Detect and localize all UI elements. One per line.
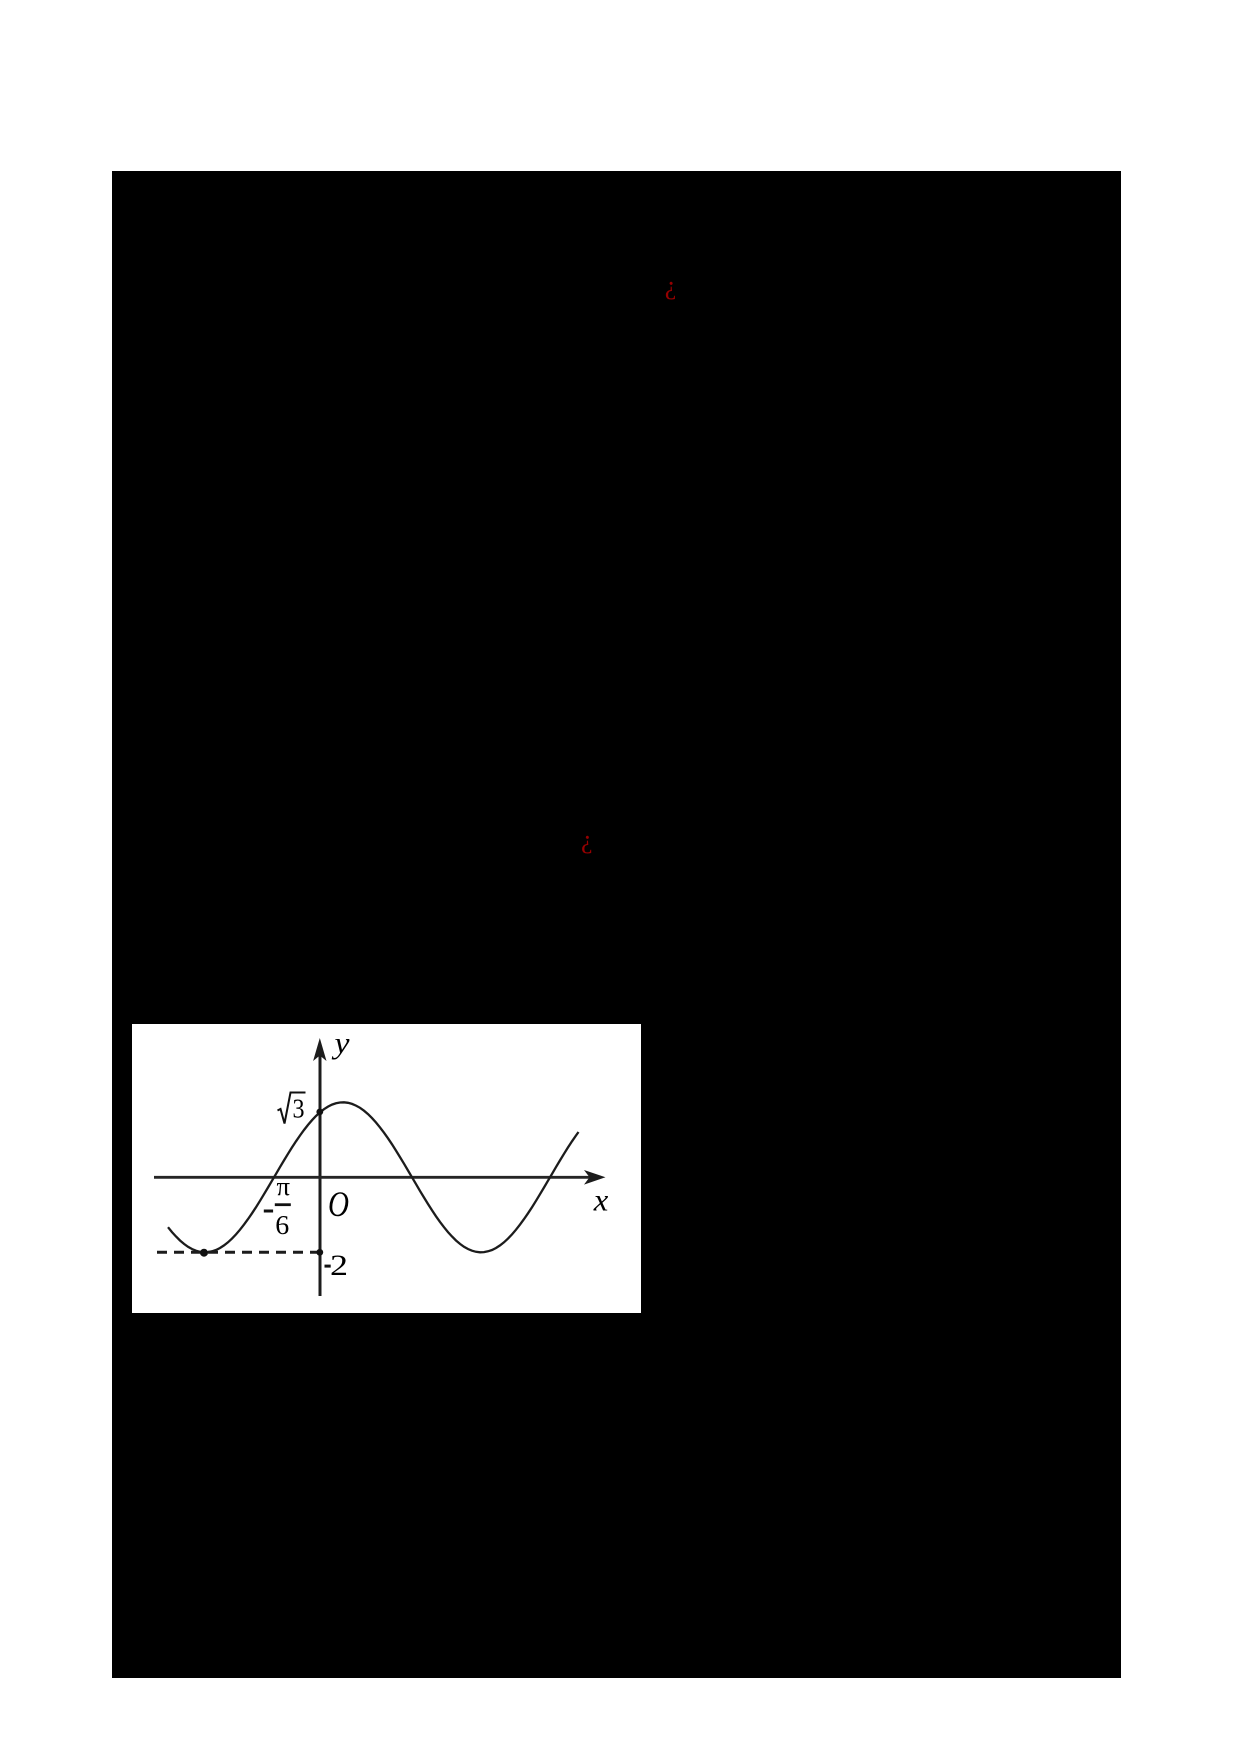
formula placeholder glyph 1 [665, 273, 677, 299]
black content block [112, 171, 1121, 1678]
graph image white box [132, 1024, 641, 1313]
svg-text:3: 3 [293, 1093, 305, 1123]
label -pi/6 minus [264, 1210, 273, 1213]
fraction bar [275, 1203, 291, 1206]
dot on y-axis at -2 [316, 1249, 323, 1256]
svg-text:2: 2 [330, 1249, 348, 1282]
dashed line y=-2 [157, 1251, 322, 1254]
dot at minimum point [200, 1249, 208, 1257]
svg-text:O: O [328, 1184, 349, 1224]
label -2 minus [325, 1265, 331, 1268]
svg-text:y: y [331, 1025, 350, 1060]
y-axis [319, 1044, 322, 1296]
formula placeholder glyph 2 [581, 827, 593, 853]
x-axis arrowhead [584, 1170, 606, 1185]
y-axis arrowhead [313, 1038, 326, 1061]
dot at (0, sqrt3) [316, 1109, 323, 1116]
svg-text:6: 6 [275, 1210, 289, 1240]
svg-text:π: π [277, 1172, 291, 1201]
x-axis [154, 1176, 598, 1179]
sqrt3 radical [278, 1093, 306, 1124]
svg-text:x: x [593, 1182, 609, 1218]
sine curve [168, 1102, 579, 1252]
